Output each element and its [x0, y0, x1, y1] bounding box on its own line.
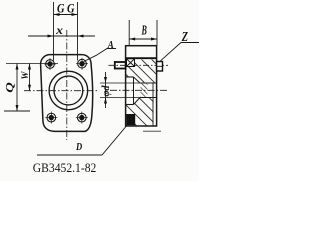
bore bottom line: [140, 97, 157, 99]
svg-text:Z: Z: [181, 29, 188, 44]
bolt hole BR: [76, 112, 88, 124]
d dimension line: [104, 72, 107, 108]
right white channel: [154, 84, 157, 126]
taper bottom: [134, 98, 141, 105]
bore white: [140, 84, 157, 97]
thread zone: [141, 84, 148, 97]
o-ring groove top: [127, 59, 135, 67]
outer circle (boss): [49, 71, 88, 110]
B dimension line: [129, 38, 157, 41]
vertical centerline: [66, 30, 68, 140]
leader A: [84, 49, 116, 62]
stud (left protrusion): [115, 61, 126, 69]
section body rectangle: [126, 46, 157, 126]
taper top: [134, 77, 141, 83]
section hatch lower band: [126, 98, 157, 126]
bolt-line horizontal: [6, 63, 58, 65]
svg-text:W: W: [20, 71, 30, 80]
d extension top: [100, 82, 140, 84]
Q dimension line: [16, 64, 19, 112]
main centerline section: [110, 89, 168, 91]
leader Z: [161, 43, 200, 61]
d extension bottom: [100, 97, 140, 99]
bolt hole TR: [76, 58, 88, 70]
svg-text:x: x: [55, 25, 63, 37]
svg-text:G G: G G: [57, 0, 75, 15]
B extension right: [156, 20, 158, 46]
socket step vertical: [133, 77, 135, 105]
svg-text:D: D: [75, 142, 82, 153]
flange outline: [41, 55, 93, 132]
horizontal centerline: [24, 90, 99, 92]
W dimension line: [28, 64, 31, 91]
bolt hole BL: [45, 112, 57, 124]
B extension left: [128, 20, 130, 46]
svg-text:φd: φd: [101, 84, 112, 96]
G dimension line: [54, 13, 78, 16]
svg-text:B: B: [141, 24, 147, 39]
socket opening white (lower): [126, 98, 140, 105]
G extension line right: [77, 2, 79, 61]
svg-text:GB3452.1-82: GB3452.1-82: [33, 161, 97, 175]
bottom reference line (outer circle tangent): [4, 110, 30, 112]
socket bottom line: [126, 104, 134, 106]
faint artifact line: [143, 130, 161, 132]
inner right vertical: [152, 83, 154, 126]
x dimension line: [28, 35, 95, 38]
leader D: [37, 126, 126, 155]
section hatch upper band: [126, 60, 157, 83]
bolt centerline: [109, 64, 169, 66]
svg-text:A: A: [107, 40, 114, 51]
face step line: [126, 57, 157, 59]
bore top line: [140, 82, 157, 84]
bore circle: [54, 76, 83, 105]
bolt hole TL: [44, 58, 56, 70]
spigot (right protrusion): [157, 62, 163, 72]
G extension line left: [53, 2, 55, 61]
svg-text:Q: Q: [4, 82, 16, 93]
socket opening white (upper): [126, 77, 140, 83]
o-ring groove bottom (black): [126, 114, 135, 125]
socket top line: [126, 76, 134, 78]
